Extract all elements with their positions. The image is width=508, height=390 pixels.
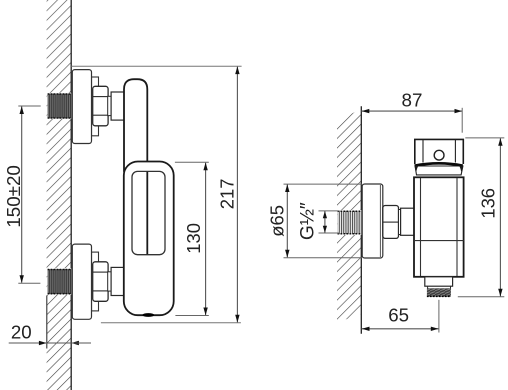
outlet step collar — [425, 277, 453, 286]
neck (side view) — [399, 210, 401, 235]
dimension G1/2 inch (thread size) — [298, 202, 340, 240]
upper hex nut — [93, 86, 108, 126]
dimension 87 (depth) — [361, 89, 462, 132]
lower escutcheon cap (second tier) — [92, 252, 99, 311]
svg-text:130: 130 — [183, 223, 204, 254]
outlet nub under body — [142, 313, 154, 317]
dimension 217 (overall height) — [71, 66, 241, 323]
valve body (front view) — [124, 79, 147, 171]
handle skirt dome — [415, 163, 463, 175]
handle head block (side view) — [415, 139, 464, 164]
svg-text:87: 87 — [402, 89, 423, 110]
lower escutcheon disc — [72, 244, 91, 319]
escutcheon disc (side view) — [362, 184, 383, 258]
lower neck — [108, 272, 111, 291]
lower hex nut — [93, 262, 108, 302]
upper escutcheon cap (second tier) — [92, 77, 99, 136]
svg-text:217: 217 — [217, 179, 238, 210]
upper escutcheon disc — [72, 70, 91, 144]
wall face line (right view) — [360, 106, 362, 334]
dimension 65 (outlet offset) — [362, 300, 439, 333]
hex nut (side view) — [383, 206, 399, 239]
dimension 20 (wall thickness) — [9, 322, 91, 346]
dimension 136 (height of fixture) — [458, 138, 505, 297]
upper neck — [108, 96, 111, 115]
body edge visible through cutout — [146, 172, 148, 255]
lower wall anchor thread — [47, 268, 71, 295]
svg-text:20: 20 — [11, 322, 32, 343]
dimension 130 (handle length) — [175, 162, 209, 315]
svg-text:150±20: 150±20 — [3, 165, 24, 228]
dimension 150±20 — [3, 106, 41, 283]
in-wall supply thread (right view) — [337, 210, 361, 235]
body (side view) — [414, 177, 464, 276]
upper wall anchor thread — [47, 93, 71, 119]
wall (left view) hatched section — [47, 0, 72, 390]
wall (right view) hatched section — [337, 109, 361, 323]
handle loop inner cutout — [132, 171, 165, 254]
wall face line (left view) — [70, 0, 72, 390]
index circle on handle — [434, 150, 444, 160]
handle loop outer (front view) — [124, 162, 174, 316]
inlet cylinder (side view) — [401, 208, 415, 235]
svg-text:G½″: G½″ — [298, 202, 319, 240]
svg-text:65: 65 — [388, 305, 409, 326]
outlet thread — [427, 286, 451, 296]
lower inlet cylinder — [111, 267, 125, 295]
dimension ø65 (escutcheon diameter) — [266, 184, 362, 258]
upper inlet cylinder — [111, 92, 125, 120]
svg-text:ø65: ø65 — [266, 205, 287, 237]
svg-text:136: 136 — [477, 188, 498, 219]
wall back edge segment near 20 dimension — [46, 296, 48, 349]
